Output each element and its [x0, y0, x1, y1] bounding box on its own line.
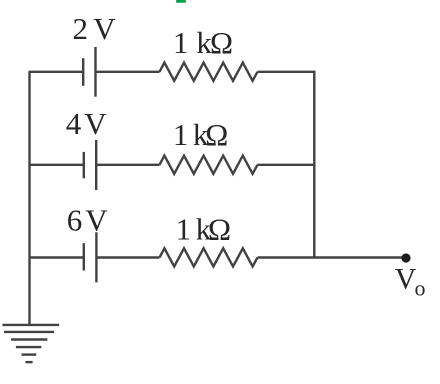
svg-text:1kΩ: 1kΩ	[173, 25, 233, 60]
wire: left vertical bus	[28, 72, 30, 325]
ground	[2, 325, 59, 362]
wire: branch 3 resistor to output node	[258, 256, 407, 258]
wire: branch 3 left segment	[29, 256, 84, 258]
wire: branch 2 left segment	[29, 164, 84, 166]
svg-text:4V: 4V	[66, 106, 107, 141]
wire: branch 2 battery to resistor	[97, 164, 159, 166]
battery V1 (2 V)	[83, 47, 95, 97]
resistor R1 (1 kOhm)	[160, 63, 258, 81]
wire: branch 2 resistor to right bus	[258, 164, 315, 166]
svg-text:6V: 6V	[67, 203, 109, 238]
battery V3 (6 V)	[84, 232, 97, 282]
wire: branch 1 resistor to right bus	[258, 71, 316, 73]
svg-text:2V: 2V	[73, 11, 117, 46]
resistor R3 (1 kOhm)	[160, 248, 258, 266]
wire: right vertical bus	[313, 71, 315, 258]
svg-text:1kΩ: 1kΩ	[173, 117, 228, 152]
green bar fragment (top edge)	[176, 0, 186, 3]
svg-text:o: o	[415, 276, 426, 301]
svg-text:V: V	[395, 263, 417, 296]
resistor R2 (1 kOhm)	[160, 156, 258, 174]
wire: branch 3 battery to resistor	[97, 256, 159, 258]
svg-text:1kΩ: 1kΩ	[176, 212, 231, 247]
battery V2 (4 V)	[84, 140, 96, 190]
node Vo terminal dot	[401, 253, 410, 262]
wire: branch 1 left segment	[29, 71, 84, 73]
wire: branch 1 battery to resistor	[97, 71, 160, 73]
